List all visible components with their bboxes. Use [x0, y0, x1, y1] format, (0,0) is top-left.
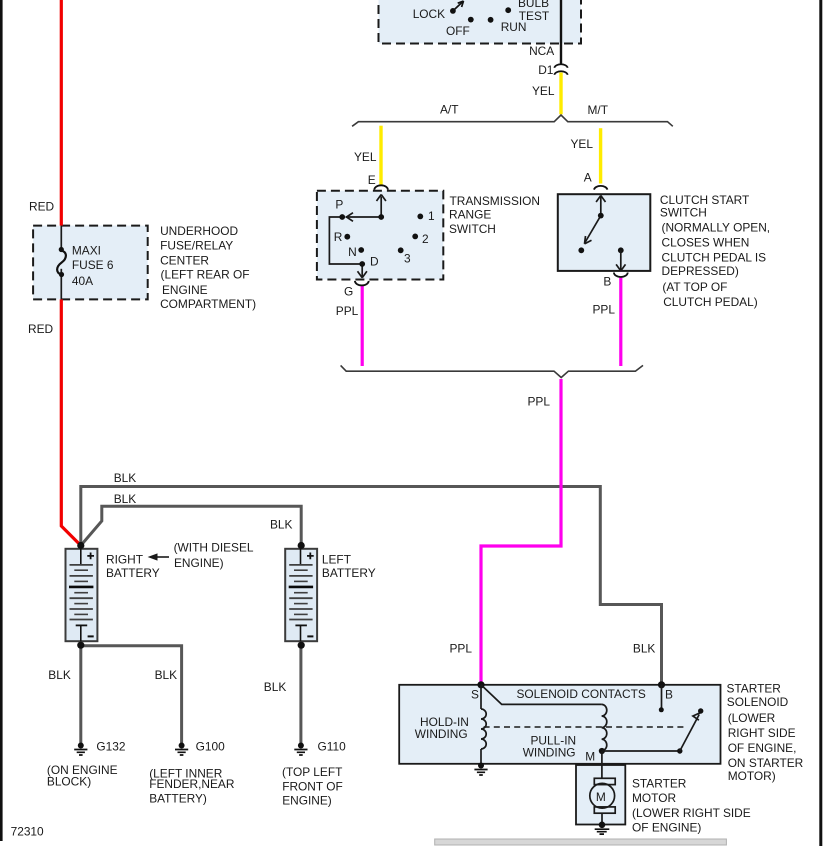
- svg-text:RED: RED: [28, 322, 54, 336]
- svg-text:BATTERY: BATTERY: [322, 566, 376, 580]
- svg-text:BLK: BLK: [114, 471, 137, 485]
- svg-text:PPL: PPL: [593, 303, 616, 317]
- svg-text:BLOCK): BLOCK): [47, 775, 91, 789]
- svg-text:(LOWER RIGHT SIDE: (LOWER RIGHT SIDE: [632, 806, 751, 820]
- svg-text:A/T: A/T: [440, 103, 459, 117]
- svg-text:WINDING: WINDING: [415, 727, 468, 741]
- svg-text:(LEFT REAR OF: (LEFT REAR OF: [161, 268, 250, 282]
- svg-text:BATTERY): BATTERY): [149, 792, 207, 806]
- svg-text:STARTER: STARTER: [632, 777, 687, 791]
- svg-text:PPL: PPL: [336, 304, 359, 318]
- svg-text:CENTER: CENTER: [160, 254, 209, 268]
- svg-text:D1: D1: [538, 63, 554, 77]
- svg-text:MAXI: MAXI: [72, 244, 101, 258]
- svg-text:ENGINE): ENGINE): [174, 556, 224, 570]
- svg-text:LEFT: LEFT: [322, 553, 351, 567]
- svg-text:B: B: [603, 274, 611, 288]
- svg-text:(LOWER: (LOWER: [728, 711, 776, 725]
- svg-text:M: M: [596, 790, 606, 804]
- svg-text:FRONT OF: FRONT OF: [282, 779, 343, 793]
- svg-text:M: M: [585, 749, 595, 763]
- svg-text:OFF: OFF: [446, 24, 470, 38]
- svg-text:OF ENGINE,: OF ENGINE,: [728, 741, 797, 755]
- svg-text:UNDERHOOD: UNDERHOOD: [160, 224, 238, 238]
- svg-text:E: E: [368, 173, 376, 187]
- svg-text:WINDING: WINDING: [523, 745, 576, 759]
- svg-text:(AT TOP OF: (AT TOP OF: [662, 280, 727, 294]
- svg-text:YEL: YEL: [532, 84, 555, 98]
- svg-text:(NORMALLY OPEN,: (NORMALLY OPEN,: [662, 221, 771, 235]
- svg-text:BLK: BLK: [114, 492, 137, 506]
- svg-text:P: P: [335, 198, 343, 212]
- svg-text:(WITH DIESEL: (WITH DIESEL: [174, 541, 254, 555]
- svg-text:G110: G110: [318, 739, 347, 753]
- svg-text:TEST: TEST: [519, 9, 549, 23]
- svg-text:YEL: YEL: [571, 137, 594, 151]
- svg-text:MOTOR): MOTOR): [728, 769, 776, 783]
- svg-text:S: S: [471, 687, 479, 701]
- svg-text:A: A: [584, 170, 592, 184]
- svg-text:LOCK: LOCK: [413, 7, 445, 21]
- svg-text:TRANSMISSION: TRANSMISSION: [450, 194, 541, 208]
- svg-text:3: 3: [404, 251, 411, 265]
- svg-text:RIGHT: RIGHT: [106, 553, 143, 567]
- svg-text:CLUTCH PEDAL IS: CLUTCH PEDAL IS: [662, 250, 767, 264]
- svg-text:RANGE: RANGE: [449, 207, 491, 221]
- svg-text:1: 1: [428, 209, 435, 223]
- svg-text:FUSE/RELAY: FUSE/RELAY: [160, 238, 233, 252]
- svg-text:G132: G132: [96, 739, 125, 753]
- svg-text:CLUTCH PEDAL): CLUTCH PEDAL): [663, 295, 758, 309]
- svg-text:SWITCH: SWITCH: [449, 222, 496, 236]
- svg-text:COMPARTMENT): COMPARTMENT): [160, 297, 256, 311]
- svg-text:D: D: [370, 255, 379, 269]
- svg-text:OF ENGINE): OF ENGINE): [632, 821, 701, 835]
- svg-text:R: R: [334, 230, 343, 244]
- svg-text:PPL: PPL: [450, 642, 473, 656]
- svg-text:RIGHT SIDE: RIGHT SIDE: [728, 726, 796, 740]
- svg-text:72310: 72310: [11, 824, 44, 838]
- svg-text:(TOP LEFT: (TOP LEFT: [282, 765, 342, 779]
- svg-text:N: N: [348, 245, 357, 259]
- svg-text:G100: G100: [196, 739, 225, 753]
- svg-text:ENGINE): ENGINE): [282, 794, 332, 808]
- svg-text:SWITCH: SWITCH: [660, 205, 707, 219]
- svg-text:BLK: BLK: [155, 668, 178, 682]
- svg-text:B: B: [665, 687, 673, 701]
- svg-text:PPL: PPL: [528, 394, 551, 408]
- svg-text:BLK: BLK: [633, 642, 656, 656]
- svg-text:BLK: BLK: [48, 668, 71, 682]
- svg-text:M/T: M/T: [588, 103, 608, 117]
- svg-text:STARTER: STARTER: [727, 682, 782, 696]
- svg-text:SOLENOID CONTACTS: SOLENOID CONTACTS: [517, 687, 646, 701]
- svg-text:YEL: YEL: [354, 150, 377, 164]
- svg-text:NCA: NCA: [529, 44, 554, 58]
- svg-text:BLK: BLK: [270, 518, 293, 532]
- svg-text:FUSE 6: FUSE 6: [72, 258, 114, 272]
- svg-text:CLOSES WHEN: CLOSES WHEN: [662, 236, 750, 250]
- svg-text:MOTOR: MOTOR: [632, 791, 676, 805]
- svg-text:SOLENOID: SOLENOID: [727, 695, 789, 709]
- svg-text:BLK: BLK: [264, 680, 287, 694]
- svg-text:DEPRESSED): DEPRESSED): [662, 264, 739, 278]
- svg-text:G: G: [344, 285, 353, 299]
- svg-text:RED: RED: [29, 199, 55, 213]
- svg-text:BATTERY: BATTERY: [106, 566, 160, 580]
- svg-text:FENDER,NEAR: FENDER,NEAR: [149, 777, 235, 791]
- svg-text:40A: 40A: [72, 274, 93, 288]
- svg-text:ENGINE: ENGINE: [162, 283, 208, 297]
- svg-text:2: 2: [422, 232, 429, 246]
